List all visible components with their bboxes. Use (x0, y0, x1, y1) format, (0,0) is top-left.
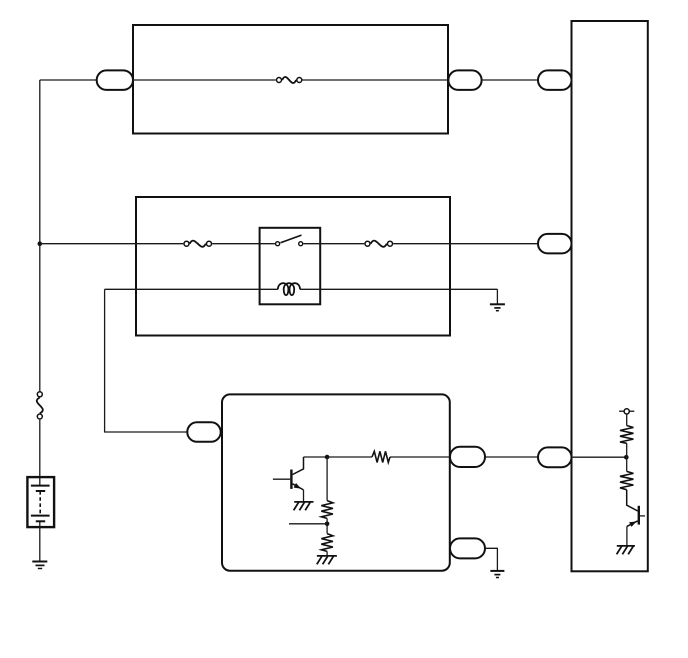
ground G5 (490, 571, 504, 578)
node N1 junction dot (325, 455, 330, 460)
connector C7 (538, 447, 572, 467)
wire Q1 emitter to ground G3 (303, 490, 305, 502)
wire C8 to ground G5 (485, 548, 497, 571)
wire C2 to C3 (482, 79, 538, 81)
transistor Q2 base lead (639, 515, 645, 517)
wire battery to ground G2 (39, 521, 41, 561)
connector C2 (448, 70, 481, 90)
transistor Q1 collector lead (293, 457, 304, 475)
wire stub into node N3 (289, 523, 327, 525)
fuse F2 (184, 241, 212, 247)
battery dashed link (39, 491, 41, 516)
wire R3 to node N2 (626, 443, 628, 471)
connector C3 (538, 70, 572, 90)
battery plate short 2 (36, 520, 45, 522)
wire inside top box left (133, 79, 276, 81)
resistor R1 vertical (321, 501, 333, 519)
relay contact right (299, 242, 303, 246)
fuse F4 vertical (37, 392, 43, 419)
resistor R5 horizontal (372, 451, 390, 462)
terminal T1 supply (619, 409, 634, 414)
wire coil left segment (105, 288, 278, 290)
battery plate long 2 (31, 515, 50, 517)
node N2 junction dot (624, 455, 629, 460)
box U4 right tall main module (572, 21, 648, 571)
wire N1 down to R1 (326, 457, 328, 501)
wire R4 to Q2 collector (627, 490, 638, 511)
node A junction dot (38, 241, 43, 246)
box U3 bottom control module (rounded) (222, 394, 450, 570)
wire F2 to relay contact (212, 243, 275, 245)
resistor R4 vertical (620, 471, 633, 489)
wire fuse to battery (39, 420, 41, 486)
wire left vertical bus upper (39, 80, 41, 391)
ground G4 hatched (617, 546, 635, 554)
wire coil right segment (300, 288, 498, 290)
relay coil L1 (278, 283, 300, 295)
relay contact left (276, 242, 280, 246)
connector C6 (450, 447, 485, 467)
wire coil branch vertical (105, 289, 188, 432)
relay K1 box (260, 228, 321, 304)
resistor R3 vertical (620, 426, 633, 444)
wire down to ground G1 (496, 289, 498, 304)
fuse F1 (277, 77, 302, 83)
wire C7 to node N2 (572, 456, 627, 458)
ground G2 (32, 562, 47, 569)
transistor Q1 emitter lead (293, 484, 304, 490)
box U2 middle relay module (136, 197, 450, 336)
wire F3 to C4 (393, 243, 538, 245)
battery plate short 1 (36, 490, 45, 492)
ground G3 hatched (294, 502, 314, 510)
transistor Q1 emitter arrow (294, 483, 301, 489)
battery BT1 box (27, 477, 54, 527)
transistor Q1 base lead (273, 478, 290, 480)
connector C4 (538, 234, 572, 254)
box U1 top ECU (133, 25, 448, 134)
wire middle net from node A (40, 243, 184, 245)
wire R1 to node N3 (326, 518, 328, 533)
fuse F3 (365, 241, 393, 247)
wire C6 to C7 (485, 456, 538, 458)
wire relay contact to F3 (303, 243, 364, 245)
node N3 junction dot (325, 522, 330, 527)
transistor Q1 base bar (290, 470, 292, 489)
resistor R2 vertical (321, 534, 333, 552)
transistor Q2 base bar (638, 506, 640, 525)
wire R2 to ground G6 (326, 551, 328, 556)
connector C5 (187, 422, 220, 442)
battery plate long 1 (31, 485, 50, 487)
wire terminal to R3 (626, 415, 628, 426)
wire Q2 emitter to ground G4 (626, 526, 628, 546)
ground G1 (490, 304, 505, 310)
connector C8 (450, 538, 485, 558)
relay switch blade (281, 235, 302, 243)
wire top-left horizontal (40, 79, 97, 81)
wire Q1 collector top horizontal (304, 456, 373, 458)
wire R5 to C6 (390, 456, 450, 458)
connector C1 (97, 70, 133, 90)
ground G6 hatched (317, 556, 337, 564)
transistor Q2 emitter arrow (629, 521, 636, 527)
wire inside top box right (303, 79, 449, 81)
transistor Q2 emitter lead (627, 521, 638, 527)
